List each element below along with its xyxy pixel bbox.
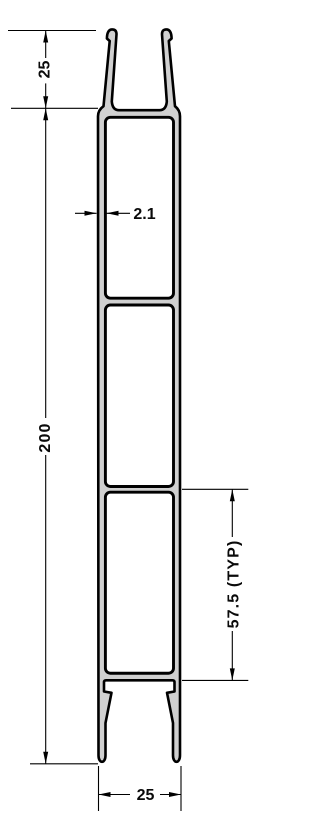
svg-text:25: 25: [36, 61, 53, 79]
dimension 57.5 TYP: dimension line: [230, 489, 235, 680]
dimension 2.1 (wall thickness): right leader and arrow: [107, 211, 131, 216]
dimension 57.5 TYP: bottom extension line: [182, 679, 248, 681]
chamber hole 1 (top hollow): [105, 117, 173, 298]
dimension 200: dimension line: [43, 108, 48, 764]
dimension 57.5 TYP: top extension line: [182, 488, 248, 490]
svg-text:200: 200: [37, 422, 54, 452]
dimension 25 (bottom): left extension line: [98, 766, 100, 811]
dimension 2.1 (wall thickness): left leader and arrow: [75, 211, 97, 216]
chamber hole 3 (bottom hollow): [105, 492, 173, 673]
svg-text:25: 25: [137, 787, 155, 804]
dimension 25 (top): dimension line: [43, 31, 48, 109]
dimension 25 (top): extension line at body top: [11, 107, 98, 109]
dimension 25 (top): extension line at prong tips: [8, 30, 96, 32]
svg-text:57.5 (TYP): 57.5 (TYP): [225, 540, 242, 629]
chamber hole 2 (middle hollow): [105, 305, 173, 487]
dimension 25 (bottom): dimension line with arrows: [99, 792, 182, 797]
dimension 200: bottom extension line: [30, 763, 98, 765]
svg-text:2.1: 2.1: [133, 206, 155, 223]
extrusion profile body (gray aluminum section with top clip prongs and bottom snap legs): [98, 29, 180, 761]
dimension 25 (bottom): right extension line: [180, 766, 182, 811]
